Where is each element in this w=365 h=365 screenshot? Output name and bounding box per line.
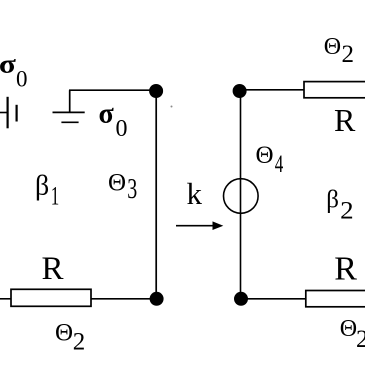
svg-text:3: 3 [127,173,137,205]
svg-text:R: R [334,102,356,138]
svg-text:σ: σ [99,98,115,129]
node (bottom right junction) [234,292,248,306]
svg-text:1: 1 [51,182,60,211]
svg-text:Θ: Θ [256,142,274,169]
svg-text:2: 2 [340,196,354,225]
svg-text:k: k [187,176,203,211]
sigma_0 label (beside ground) [99,98,128,142]
svg-text:Θ: Θ [55,319,73,346]
Theta_2 label (above top-right resistor) [324,34,354,68]
svg-text:4: 4 [275,151,284,178]
beta_1 label [35,171,59,211]
Theta_3 label [108,169,137,205]
svg-text:β: β [35,171,49,202]
wire (resistor to bottom-left node) [91,298,156,300]
wire (capacitor left lead to image edge) [0,112,7,114]
svg-text:0: 0 [116,116,128,142]
svg-text:Θ: Θ [340,316,357,342]
node (top right junction) [233,84,247,98]
wire (top-right node to resistor) [246,89,304,91]
Theta_2 label (below bottom-right resistor, cut off) [340,316,365,353]
wire (bottom-right node to resistor) [247,298,306,300]
arrow (coupling k, pointing right) [176,221,223,230]
svg-text:R: R [334,251,357,288]
resistor R (top right, cut off at edge) [304,82,365,98]
svg-text:2: 2 [356,326,365,353]
Theta_4 label [256,142,284,178]
wire (left vertical) [155,90,157,298]
resistor R (bottom right, cut off at edge) [306,291,365,307]
resistor R (bottom left) [11,289,91,306]
ground [53,90,85,122]
wire (bottom left, edge to resistor) [0,298,11,300]
speck artifact [171,106,173,108]
svg-text:σ: σ [0,50,16,79]
svg-text:0: 0 [16,66,28,91]
node (top left junction) [149,84,163,98]
source U1 (circle symbol) [224,179,259,214]
node (bottom left junction) [150,292,164,306]
svg-text:Θ: Θ [108,169,126,196]
svg-text:β: β [326,187,339,214]
svg-text:Θ: Θ [324,34,341,60]
svg-text:2: 2 [73,328,86,355]
wire (right vertical through source) [240,90,242,298]
svg-text:2: 2 [342,41,355,68]
capacitor C (cut off at left edge) [8,97,17,129]
sigma_0 label (top left, cut off) [0,50,28,92]
svg-text:R: R [42,251,64,287]
beta_2 label [326,187,353,225]
Theta_2 label (below bottom-left resistor) [55,319,85,355]
wire (ground to top-left node) [69,89,156,91]
